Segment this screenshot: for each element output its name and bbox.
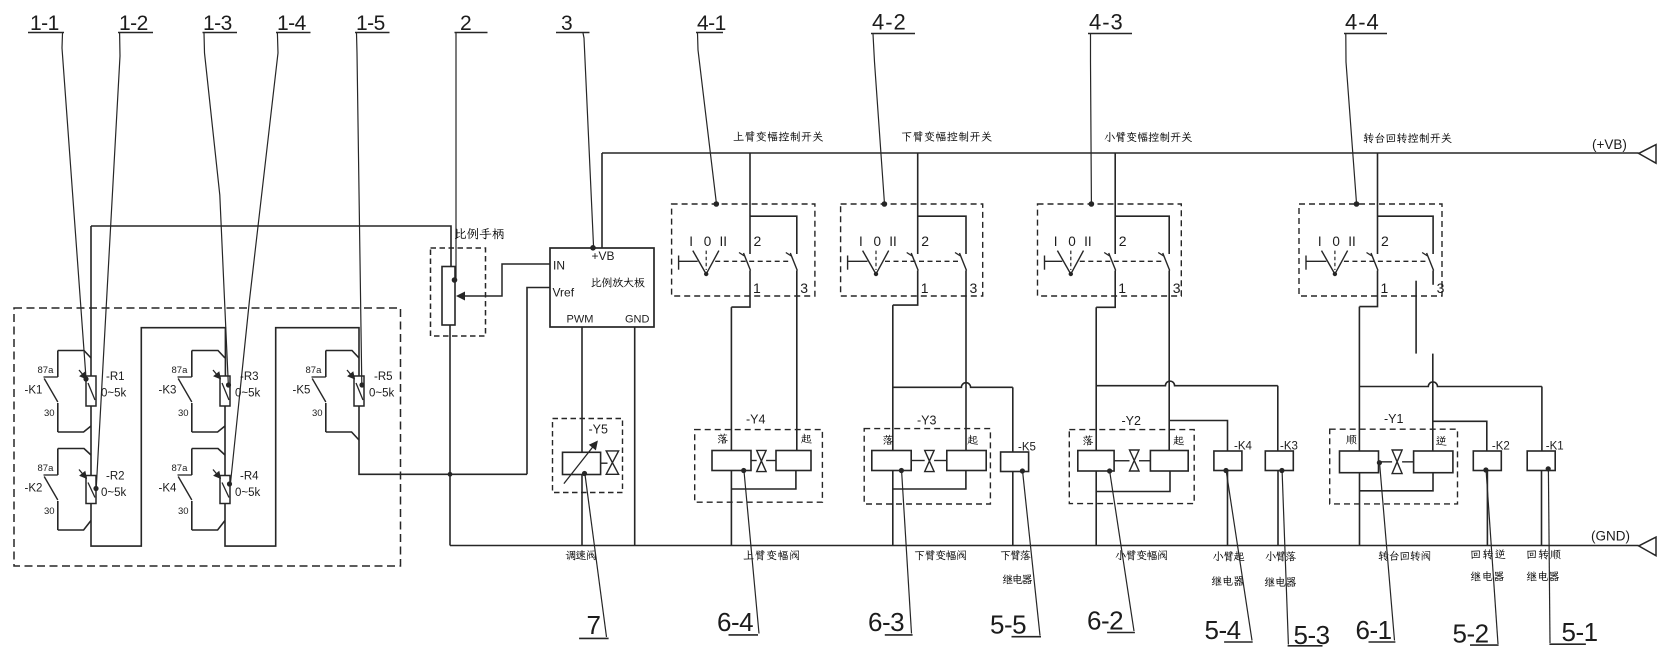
junction dot handle bottom / Vref line [448,472,453,477]
svg-text:3: 3 [800,280,808,296]
svg-text:2: 2 [460,12,471,35]
svg-text:-Y2: -Y2 [1122,414,1142,428]
svg-text:2: 2 [921,233,929,249]
relay contact K3 terminal 87a wire [192,351,225,359]
label 比例放大板 [591,278,601,287]
wire 4-2 pin3 to Y3 right coil [965,271,967,451]
svg-text:-R4: -R4 [240,471,259,483]
label 上臂变幅阀 [744,550,754,559]
wire Y5 coil bottom to GND rail [581,475,583,546]
wire +VB rail to switch 4-3 common [1114,153,1116,254]
proportional amplifier board U1 [550,248,654,327]
wire Y4 left coil to GND rail [730,471,732,546]
svg-text:87a: 87a [306,365,323,376]
svg-text:-R1: -R1 [106,371,125,383]
leader dot on R1 [83,376,88,381]
coil char right of Y4 [801,434,812,444]
svg-text:-Y5: -Y5 [589,423,609,437]
net GND rail [450,545,1639,547]
leader dot on R4 [227,481,232,486]
svg-text:87a: 87a [38,463,55,474]
terminal (GND) [1639,537,1656,556]
solenoid coil Y4 right body [776,451,811,471]
svg-text:5-5: 5-5 [990,610,1026,640]
wire +VB rail to switch 4-1 common [749,153,751,254]
svg-text:30: 30 [44,506,55,517]
net +VB rail [602,152,1639,154]
wire branch to second contact of 4-1 [750,216,797,254]
leader dot on R2 [93,486,98,491]
wire branch to second contact of 4-3 [1115,216,1169,254]
wire +VB rail to switch 4-4 common [1377,153,1379,254]
label 比例手柄 [455,228,466,239]
leader dot on switch 4-2 [882,201,888,207]
wire K3 coil to GND rail [1277,471,1279,546]
svg-text:5-1: 5-1 [1562,617,1598,647]
relay coil K4 body [1214,451,1242,471]
leader dot on R5 [359,382,364,387]
terminal (+VB) [1639,145,1656,164]
potentiometer R4 body [220,476,230,504]
handle potentiometer body [442,267,455,326]
wire branch to relay K5 with crossover [893,383,1013,388]
svg-text:-R5: -R5 [374,371,393,383]
wire Y4 right coil to common [731,471,796,490]
dashed enclosure switch 4-3 [1038,204,1182,296]
potentiometer R3 body [220,376,230,406]
svg-text:Vref: Vref [553,286,575,300]
wire K2 coil to GND rail [1486,471,1488,546]
relay contact K1 fixed contact stub [57,351,59,378]
dashed enclosure valve Y4 [695,430,823,503]
svg-text:1-2: 1-2 [119,12,148,35]
dashed enclosure switch 4-1 [672,204,815,296]
coil char left of Y4 [718,434,728,444]
wire 4-3 pin3 to Y2 right coil [1168,271,1170,451]
svg-text:87a: 87a [38,365,55,376]
svg-text:II: II [1348,234,1356,249]
junction dot on K3 (leader) [1279,468,1284,473]
label 回转逆继电器 [1471,551,1480,559]
solenoid coil Y3 left body [872,451,911,471]
svg-text:30: 30 [178,506,189,517]
svg-text:-K5: -K5 [293,385,311,397]
relay contact K1 terminal 30 wire [58,426,91,432]
svg-text:-R3: -R3 [240,371,259,383]
dashed enclosure switch 4-2 [841,204,983,296]
junction dot leader 2 on handle potentiometer [452,277,458,283]
relay contact K3 terminal 30 wire [192,426,225,432]
svg-text:I: I [859,234,863,249]
relay contact K3 blade [178,379,192,403]
label 小臂落继电器 [1266,551,1276,561]
potentiometer R2 wiper arrow [79,470,87,479]
dashed enclosure proportional handle [431,248,486,336]
junction dot on K2 (leader) [1483,467,1488,472]
contact pin3 blade of 4-1 [786,253,792,257]
wire pin1 of 4-4 [1359,271,1377,307]
svg-text:6-2: 6-2 [1087,606,1123,636]
potentiometer R4 wiper arrow [213,470,221,479]
wire R5 bottom to Vref line [359,406,527,474]
svg-text:0~5k: 0~5k [101,388,127,400]
svg-text:6-4: 6-4 [717,607,753,637]
relay contact K4 blade [178,477,192,501]
wire branch to relay K2 [1433,421,1487,451]
solenoid coil Y3 right body [947,451,986,471]
dashed enclosure valve Y1 [1330,429,1458,504]
label 调速阀 [566,551,576,561]
control switch 4-3 label 小臂变幅控制开关 [1105,132,1115,142]
control switch 4-4 label 转台回转控制开关 [1364,133,1374,143]
svg-text:4-2: 4-2 [872,10,907,35]
relay contact K2 blade [44,477,58,501]
svg-text:3: 3 [970,280,978,296]
leader dot on R3 [226,382,231,387]
svg-text:3: 3 [1437,280,1445,296]
svg-text:-K1: -K1 [25,385,43,397]
junction dot on K1 (leader) [1546,466,1551,471]
wire pin1 of 4-2 [893,271,918,306]
wire K4 coil to GND rail [1227,471,1229,546]
relay contact K5 terminal 30 stub [325,403,327,432]
wire branch to relay K4 [1169,421,1227,452]
selector lever of 4-1 [693,251,706,275]
svg-text:1: 1 [921,280,929,296]
wire 4-1 pin3 to Y4 right coil [796,271,798,451]
wire branch to relay K1 with crossover [1359,382,1542,387]
contact pin3 blade of 4-4 [1422,253,1428,257]
svg-text:6-3: 6-3 [868,607,904,637]
valve symbol of Y3 [911,460,925,462]
svg-text:2: 2 [1381,233,1389,249]
solenoid coil Y1 right body [1414,451,1453,473]
svg-text:-K4: -K4 [159,483,178,495]
mechanical link line of 4-4 [1305,256,1307,270]
coil char left of Y1 [1346,435,1356,444]
svg-text:IN: IN [553,259,565,273]
svg-text:-R2: -R2 [106,471,125,483]
svg-text:-Y1: -Y1 [1384,412,1404,426]
wire handle potentiometer bottom to GND rail [449,325,451,546]
svg-text:-K1: -K1 [1546,441,1564,453]
leader dot on switch 4-4 [1354,201,1360,207]
junction dot leader 3 on amplifier +VB [590,245,596,251]
svg-text:4-1: 4-1 [697,12,726,35]
dashed enclosure valve Y2 [1069,430,1194,504]
svg-text:-K5: -K5 [1018,442,1036,454]
wire R4 bottom run to riser [225,328,359,546]
contact pin3 blade of 4-3 [1158,253,1164,257]
potentiometer R5 wiper arrow [347,370,355,379]
contact pin2 blade of 4-3 [1104,253,1110,257]
svg-text:1-3: 1-3 [203,12,232,35]
svg-text:2: 2 [754,233,762,249]
svg-text:0~5k: 0~5k [101,487,127,499]
wire R1 top to proportional handle (node A) [90,226,92,376]
svg-text:87a: 87a [172,365,189,376]
relay coil K5 body [1001,452,1029,472]
relay contact K5 terminal 30 wire [326,432,359,440]
wire Y3 right coil to common [893,471,966,490]
dashed enclosure valve Y3 [864,429,990,504]
potentiometer R1 body [86,376,96,406]
svg-text:0~5k: 0~5k [235,388,261,400]
svg-text:+VB: +VB [592,249,615,263]
potentiometer R5 body [354,376,364,406]
svg-text:I: I [689,234,693,249]
wire branch to relay K3 with crossover [1096,381,1278,386]
svg-text:II: II [1084,234,1092,249]
dashed enclosure switch 4-4 [1299,204,1442,296]
relay coil K3 body [1265,451,1293,471]
wire to Y1 right coil [1432,354,1434,451]
svg-text:-K3: -K3 [1280,441,1298,453]
svg-text:-Y4: -Y4 [746,413,766,427]
label 回转顺继电器 [1527,551,1536,559]
wire branch to second contact of 4-4 [1378,216,1434,254]
handle wiper arrow and wire to IN [464,264,550,296]
wire node A to handle potentiometer top [91,226,451,267]
dashed enclosure of potentiometer network [14,308,401,566]
wire 4-3 pin1 to Y2 left coil [1095,307,1097,450]
svg-text:1: 1 [1381,280,1389,296]
svg-text:II: II [720,234,728,249]
valve symbol of Y5 [601,462,608,464]
wire 4-1 pin1 to Y4 left coil [730,307,732,450]
wire Y3 left coil to GND rail [892,471,894,546]
svg-text:I: I [1318,234,1322,249]
control switch 4-1 label 上臂变幅控制开关 [734,132,744,141]
contact pin2 blade of 4-2 [907,253,913,257]
svg-text:0: 0 [1332,234,1340,249]
valve symbol of Y1 [1379,461,1393,463]
wire 4-2 pin1 to Y3 left coil [892,305,894,450]
svg-text:87a: 87a [172,463,189,474]
wire pin1 of 4-1 [731,271,750,308]
svg-text:4-3: 4-3 [1089,10,1124,35]
junction dot on Y1 (leader) [1377,460,1382,465]
svg-text:4-4: 4-4 [1345,10,1380,35]
svg-text:30: 30 [44,408,55,419]
mechanical link line of 4-2 [847,256,849,270]
contact pin2 blade of 4-4 [1367,253,1373,257]
label 小臂起继电器 [1213,551,1223,561]
solenoid coil Y2 left body [1078,451,1114,472]
wire +VB rail to switch 4-2 common [917,153,919,254]
svg-text:5-2: 5-2 [1453,619,1489,649]
junction dot on Y3 (leader) [899,468,904,473]
svg-text:0: 0 [704,234,712,249]
wire Y1 right coil to common [1360,473,1434,491]
svg-text:0: 0 [1068,234,1076,249]
label 下臂落继电器 [1001,551,1010,560]
svg-text:-K4: -K4 [1234,441,1253,453]
relay contact K4 terminal 30 stub [191,501,193,530]
contact pin2 blade of 4-1 [739,253,745,257]
valve symbol of Y4 [751,460,757,462]
selector lever of 4-3 [1057,251,1070,275]
relay contact K5 fixed contact stub [325,351,327,378]
svg-text:-K2: -K2 [25,483,43,495]
svg-text:30: 30 [178,408,189,419]
mechanical link line of 4-1 [678,256,680,270]
label 转台回转阀 [1379,551,1389,561]
label 下臂变幅阀 [915,551,924,560]
svg-text:1-1: 1-1 [30,12,59,35]
svg-text:GND: GND [625,314,650,326]
svg-text:6-1: 6-1 [1356,615,1392,645]
selector lever of 4-2 [863,251,876,275]
selector lever of 4-4 [1322,251,1335,275]
svg-text:(GND): (GND) [1591,529,1630,544]
solenoid coil Y1 left body [1340,451,1379,473]
relay contact K3 terminal 30 stub [191,403,193,432]
wire +VB pin to +VB rail [601,153,603,248]
wire K5 coil to GND rail [1012,472,1014,546]
wire 4-4 pin1 to Y1 left coil [1358,307,1360,451]
relay contact K2 fixed contact stub [57,449,59,476]
relay contact K1 terminal 30 stub [57,403,59,432]
svg-text:1-4: 1-4 [277,12,307,35]
svg-text:II: II [889,234,897,249]
relay contact K4 terminal 30 wire [192,521,225,531]
svg-text:1: 1 [1118,280,1126,296]
relay contact K3 fixed contact stub [191,351,193,378]
coil char right of Y1 [1436,436,1446,446]
coil char right of Y2 [1173,435,1184,445]
solenoid coil Y4 left body [712,451,751,471]
wire Y2 right coil to common [1096,471,1170,492]
solenoid coil Y2 right body [1150,451,1188,472]
svg-text:3: 3 [1173,280,1181,296]
relay contact K5 blade [312,379,326,403]
junction dot on Y5 coil (leader 7) [582,471,587,476]
relay contact K2 terminal 30 stub [57,501,59,530]
svg-text:-K2: -K2 [1492,441,1510,453]
proportional arrow through Y5 [564,444,596,484]
relay contact K2 terminal 87a wire [58,449,91,456]
svg-text:1-5: 1-5 [356,12,385,35]
svg-text:1: 1 [753,280,761,296]
junction dot on Y2 (leader) [1107,468,1112,473]
svg-text:5-4: 5-4 [1205,615,1241,645]
junction dot on K5 (leader) [1020,468,1025,473]
svg-text:(+VB): (+VB) [1592,137,1627,152]
svg-text:-Y3: -Y3 [917,414,937,428]
coil char right of Y3 [967,435,978,445]
coil char left of Y3 [883,435,893,445]
svg-text:I: I [1054,234,1058,249]
wire K1 coil to GND rail [1541,471,1543,546]
potentiometer R3 wiper arrow [213,370,221,379]
leader dot on switch 4-1 [714,201,720,207]
svg-text:-K3: -K3 [159,385,177,397]
svg-text:PWM: PWM [567,314,594,326]
relay coil K1 body [1527,451,1555,471]
relay contact K2 terminal 30 wire [58,521,91,531]
solenoid coil Y5 body [563,452,601,474]
mechanical link line of 4-3 [1044,256,1046,270]
svg-text:0~5k: 0~5k [369,388,395,400]
relay contact K4 fixed contact stub [191,449,193,476]
leader dot on switch 4-3 [1089,201,1095,207]
wire R3 bottom to R4 top [224,406,226,476]
wire R2 bottom run to riser [91,328,225,546]
relay contact K4 terminal 87a wire [192,449,225,456]
relay contact K5 terminal 87a wire [326,351,359,359]
wire PWM pin to valve Y5 [581,327,583,452]
dashed enclosure valve Y5 [553,419,623,493]
valve symbol of Y2 [1114,460,1129,462]
svg-text:30: 30 [312,408,323,419]
potentiometer R1 wiper arrow [79,370,87,379]
junction dot on Y4 (leader) [741,468,746,473]
wire branch to second contact of 4-2 [918,216,966,254]
relay contact K1 terminal 87a wire [58,351,91,359]
wire 4-4 pin3 offset segment [1415,281,1417,354]
junction dot on K4 (leader) [1223,468,1228,473]
svg-text:0~5k: 0~5k [235,487,261,499]
relay coil K2 body [1473,451,1501,471]
contact pin3 blade of 4-2 [955,253,961,257]
control switch 4-2 label 下臂变幅控制开关 [902,132,912,141]
wire 4-4 pin3 stub [1432,271,1434,285]
wire pin1 of 4-3 [1096,271,1115,308]
wire R1 bottom to R2 top [90,406,92,476]
svg-text:0: 0 [874,234,882,249]
svg-text:7: 7 [587,610,601,640]
relay contact K1 blade [44,379,58,403]
potentiometer R2 body [86,476,96,504]
svg-text:3: 3 [561,12,572,35]
wire Vref pin [527,288,550,475]
coil char left of Y2 [1083,435,1093,445]
label 小臂变幅阀 [1116,550,1126,560]
svg-text:2: 2 [1119,233,1127,249]
wire Y2 left coil to GND rail [1095,471,1097,546]
wire Y1 left coil to GND rail [1359,473,1361,546]
wire GND pin to GND rail [634,327,636,546]
